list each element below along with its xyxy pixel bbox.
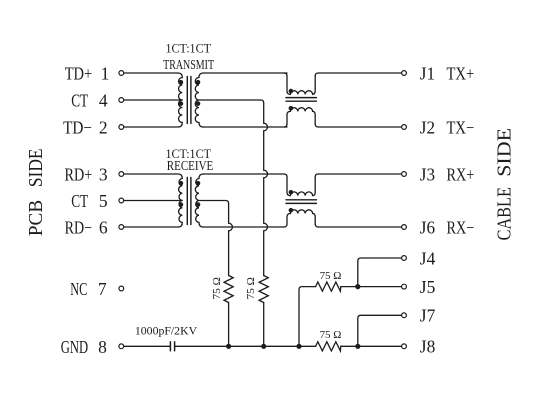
wire choke L1 to J1 <box>318 72 401 74</box>
svg-text:4: 4 <box>99 90 108 110</box>
transformer T1 core <box>187 77 191 124</box>
T1 polarity dot secondary bottom <box>196 101 201 106</box>
svg-text:SIDE: SIDE <box>494 128 516 177</box>
pin 6 terminal <box>119 225 124 230</box>
svg-text:J2: J2 <box>420 117 435 137</box>
wire R2 bottom to GND rail <box>263 303 265 347</box>
svg-text:J6: J6 <box>420 217 436 237</box>
svg-text:J8: J8 <box>420 337 436 357</box>
svg-text:TRANSMIT: TRANSMIT <box>163 57 215 72</box>
svg-text:CT: CT <box>71 90 88 110</box>
svg-text:75 Ω: 75 Ω <box>245 277 257 300</box>
svg-text:TD+: TD+ <box>65 63 93 83</box>
capacitor C1 1000pF plates <box>170 342 174 351</box>
resistor R3 75 ohm horizontal (J5 row) <box>316 282 341 291</box>
svg-text:75 Ω: 75 Ω <box>320 329 342 341</box>
wire node R1 vertical with hop at RX- row <box>229 204 233 276</box>
junction node R2/GND <box>261 344 266 349</box>
svg-text:8: 8 <box>98 337 107 357</box>
resistor R4 75 ohm horizontal (GND row) <box>316 342 341 351</box>
svg-text:NC: NC <box>70 279 87 299</box>
choke L2 core <box>286 200 316 204</box>
svg-text:TX+: TX+ <box>447 63 475 83</box>
choke L2 bottom winding <box>287 210 315 224</box>
svg-text:CT: CT <box>71 191 88 211</box>
svg-text:SIDE: SIDE <box>25 149 47 188</box>
J4 terminal <box>402 256 407 261</box>
J7 terminal <box>402 313 407 318</box>
choke L1 polarity dot top <box>289 89 294 94</box>
svg-text:RX−: RX− <box>447 217 475 237</box>
choke L1 core <box>286 98 316 102</box>
wire R1 bottom to GND rail <box>228 303 230 347</box>
pin 3 terminal <box>119 172 124 177</box>
wire choke L2 to J3 <box>318 173 401 175</box>
svg-text:TX−: TX− <box>447 117 475 137</box>
pin 4 terminal <box>119 98 124 103</box>
T2 polarity dot secondary bottom <box>196 202 201 207</box>
T2 polarity dot primary top <box>179 181 184 186</box>
svg-text:75 Ω: 75 Ω <box>211 277 223 300</box>
T1 polarity dot primary bottom <box>179 101 184 106</box>
svg-text:RD+: RD+ <box>65 164 93 184</box>
choke L1 top winding <box>287 76 315 94</box>
J3 terminal <box>402 172 407 177</box>
GND rail wire capacitor to resistor R4 <box>175 345 316 347</box>
resistor R1 75 ohm vertical <box>224 276 233 303</box>
svg-text:2: 2 <box>99 117 108 137</box>
svg-text:J1: J1 <box>420 63 435 83</box>
junction node R3/GND <box>296 344 301 349</box>
transformer T2 secondary winding <box>195 174 203 227</box>
wire T1 secondary bottom to choke L1 (TX- row) <box>203 126 287 128</box>
choke L2 top winding <box>287 177 315 196</box>
transformer T2 primary winding (RD side) <box>124 174 182 227</box>
choke L1 polarity dot bottom <box>289 106 294 111</box>
wire T2 secondary top to choke L2 (RX+ row) <box>203 173 284 175</box>
wire T2 secondary bottom to choke L2 (RX- row) <box>203 226 284 228</box>
wire node R2 vertical with hops at TX-, RX+, RX- rows <box>264 103 268 276</box>
svg-text:TD−: TD− <box>63 117 92 137</box>
transformer T1 primary winding (TD side) <box>124 73 182 127</box>
T1 polarity dot primary top <box>179 80 184 85</box>
wire pin8 GND to capacitor C1 <box>124 345 170 347</box>
junction node J7/J8 <box>355 344 360 349</box>
wire R3 left corner from GND rail <box>299 287 316 347</box>
svg-text:J3: J3 <box>420 164 436 184</box>
wire choke L1 to J2 <box>318 126 401 128</box>
T2 polarity dot secondary top <box>196 181 201 186</box>
J2 terminal <box>402 125 407 130</box>
T2 polarity dot primary bottom <box>179 202 184 207</box>
J5 terminal <box>402 284 407 289</box>
choke L2 polarity dot top <box>289 190 294 195</box>
wire T2 secondary center tap to node R1 <box>199 201 229 204</box>
resistor R2 75 ohm vertical <box>259 276 268 303</box>
svg-text:5: 5 <box>99 191 108 211</box>
svg-text:RECEIVE: RECEIVE <box>167 158 214 173</box>
J8 terminal <box>402 344 407 349</box>
choke L1 bottom winding <box>287 108 315 124</box>
svg-text:RD−: RD− <box>65 217 92 237</box>
pin 7 terminal NC <box>119 286 124 291</box>
svg-text:6: 6 <box>99 217 108 237</box>
wire choke L1 corners <box>284 73 318 127</box>
wire pin4 CT to T1 primary center tap <box>124 99 182 101</box>
svg-text:1CT:1CT: 1CT:1CT <box>165 41 211 56</box>
svg-text:1: 1 <box>101 63 110 83</box>
transformer T2 core <box>187 178 191 225</box>
wire choke L2 corners <box>284 174 318 227</box>
pin 5 terminal <box>119 198 124 203</box>
svg-text:75 Ω: 75 Ω <box>320 270 342 282</box>
choke L2 polarity dot bottom <box>289 208 294 213</box>
svg-text:RX+: RX+ <box>447 164 475 184</box>
svg-text:J5: J5 <box>420 277 436 297</box>
pin 2 terminal <box>119 125 124 130</box>
wire T1 secondary top to choke L1 <box>203 72 287 74</box>
wire choke L2 to J6 <box>318 226 401 228</box>
wire pin5 CT to T2 primary center tap <box>124 200 182 202</box>
J6 terminal <box>402 225 407 230</box>
T1 polarity dot secondary top <box>196 80 201 85</box>
svg-text:1000pF/2KV: 1000pF/2KV <box>135 324 198 338</box>
pin 1 terminal <box>119 71 124 76</box>
svg-text:7: 7 <box>98 279 107 299</box>
transformer T1 secondary winding <box>195 73 203 127</box>
svg-text:CABLE: CABLE <box>494 187 516 240</box>
wire R3 to J5 <box>341 286 402 288</box>
svg-text:3: 3 <box>99 164 108 184</box>
wire branch node to J4 <box>358 258 402 287</box>
wire R4 to J8 <box>341 345 402 347</box>
svg-text:J7: J7 <box>420 306 436 326</box>
svg-text:J4: J4 <box>420 248 436 268</box>
J1 terminal <box>402 71 407 76</box>
pin 8 terminal GND <box>119 344 124 349</box>
wire T1 secondary center tap to node R2 <box>199 100 264 103</box>
svg-text:PCB: PCB <box>25 200 47 236</box>
svg-text:GND: GND <box>61 337 88 357</box>
junction node R1/GND <box>226 344 231 349</box>
junction node J4/J5 <box>355 284 360 289</box>
wire branch node to J7 <box>358 315 402 346</box>
